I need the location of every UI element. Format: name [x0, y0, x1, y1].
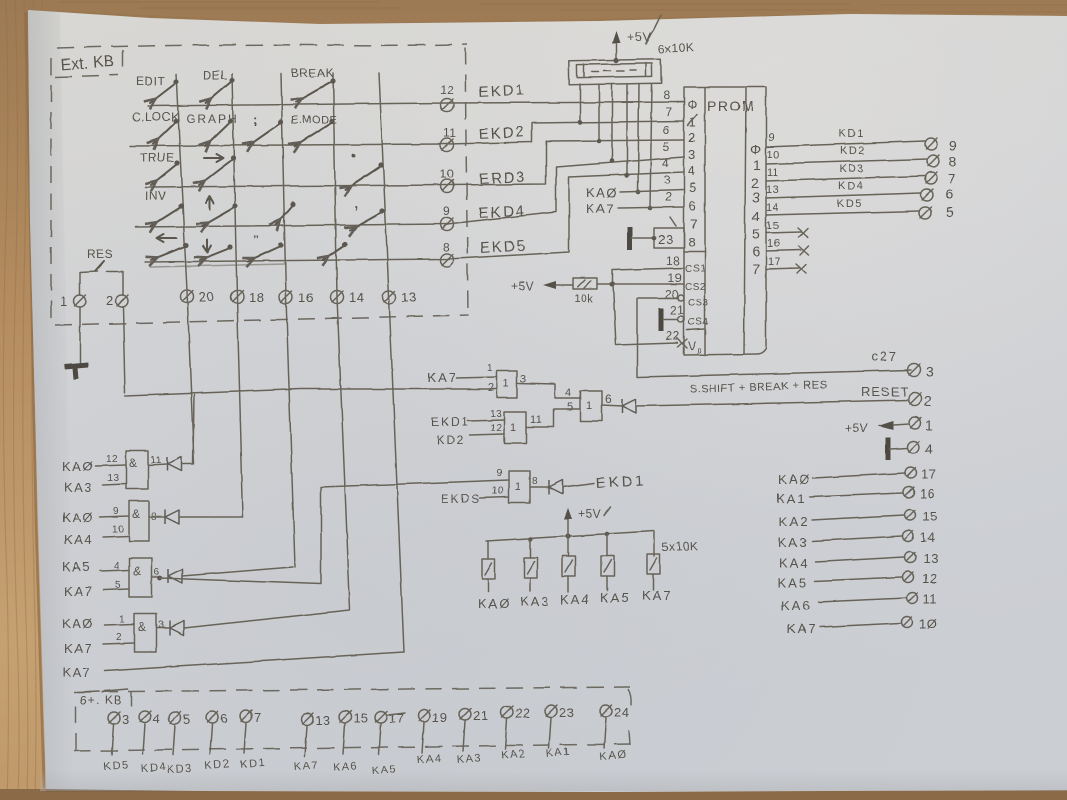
switch E.MODE: [291, 114, 337, 146]
svg-text:+5V: +5V: [845, 421, 868, 435]
svg-text:9: 9: [949, 137, 957, 153]
svg-text:EKD5: EKD5: [479, 238, 527, 257]
node 9 (EKD4 pin): [441, 204, 454, 231]
wire Vp: [613, 284, 678, 345]
svg-text:KA7: KA7: [62, 665, 91, 680]
gate U3A (KA0/KA3): [62, 451, 167, 495]
svg-text:4: 4: [153, 711, 161, 726]
svg-text:12: 12: [106, 454, 118, 465]
svg-text:13: 13: [107, 473, 119, 484]
wire KA5 to node 12: [778, 571, 937, 590]
svg-text:KA7: KA7: [427, 370, 458, 385]
output KD4 wire to node 6: [766, 180, 954, 202]
resistor network RN1 6x10K: [569, 40, 695, 85]
output KD3 wire to node 7: [766, 163, 956, 186]
svg-text:5: 5: [946, 204, 954, 220]
svg-text:10: 10: [440, 167, 454, 181]
svg-text:10k: 10k: [574, 293, 593, 305]
svg-text:EKD1: EKD1: [478, 82, 526, 101]
svg-text:+5V: +5V: [511, 279, 534, 293]
wire row EKD3 to PROM pin6: [145, 140, 684, 187]
svg-text:KD4: KD4: [838, 180, 864, 192]
resistor network RN2 5x10K bus: [486, 531, 654, 556]
svg-text:9: 9: [768, 132, 775, 144]
node 2 (RES): [106, 293, 128, 308]
svg-text:7: 7: [690, 216, 698, 231]
wire row5 overdraw stroke: [150, 264, 285, 267]
svg-text:24: 24: [614, 705, 629, 720]
svg-text:1: 1: [753, 157, 761, 173]
wire U3C output to gate U2D pin9: [160, 480, 509, 584]
svg-text:13: 13: [401, 290, 416, 305]
svg-text:KAØ: KAØ: [778, 472, 811, 487]
svg-text:TRUE: TRUE: [140, 151, 175, 165]
svg-text:EKD4: EKD4: [478, 203, 526, 222]
svg-text:20: 20: [665, 287, 679, 301]
resistor RN2-4: [601, 534, 614, 590]
svg-text:KA1: KA1: [776, 491, 807, 506]
+5V arrow (RN2): [564, 507, 610, 536]
node 8 (EKD5 pin): [441, 240, 454, 267]
svg-text:2: 2: [488, 382, 495, 394]
svg-text:1: 1: [515, 481, 522, 493]
node 10 (EKD3 pin): [440, 167, 454, 193]
svg-text:14: 14: [766, 202, 779, 214]
svg-text:KA7: KA7: [293, 759, 319, 773]
diode D4: [170, 621, 184, 635]
connector pin 23 / KA1: [545, 705, 574, 760]
svg-text:9: 9: [443, 204, 450, 218]
connector pin 15 / KA6: [332, 711, 368, 774]
node 2 (RESET): [909, 393, 933, 410]
svg-text:3: 3: [158, 620, 164, 631]
connector pin 19 / KA4: [416, 710, 447, 766]
svg-text:8: 8: [688, 235, 696, 250]
wire KA2 to node 15: [779, 509, 937, 529]
gate U3D (KA0/KA7): [62, 614, 170, 656]
connector pin 24 / KA0: [599, 705, 629, 763]
svg-text:18: 18: [249, 290, 264, 305]
svg-text:KA7: KA7: [642, 588, 673, 603]
Vp cross mark: [677, 338, 687, 348]
KA7 bus wire: [125, 389, 497, 396]
wire KA4 to node 13: [779, 551, 938, 571]
wire CS3 long loop to node 3: [637, 298, 911, 377]
node 3 (C27): [908, 364, 935, 381]
svg-text:KA5: KA5: [778, 575, 809, 590]
label KA7 (PROM address): [586, 201, 684, 216]
svg-text:KAØ: KAØ: [62, 616, 94, 631]
wire RES-2 down to KA7 bus: [123, 307, 125, 393]
node 20 (column 1 pin): [181, 289, 215, 304]
svg-text:14: 14: [920, 530, 935, 545]
node 4 (supply bar): [888, 438, 933, 460]
svg-text:13: 13: [923, 551, 938, 566]
svg-text:KA1: KA1: [545, 746, 571, 760]
connector pin 17 / KA5: [371, 711, 405, 777]
output KD2 wire to node 8: [766, 145, 957, 169]
svg-text:2: 2: [116, 632, 122, 643]
svg-text:KA3: KA3: [456, 752, 482, 766]
CS4 supply bar: [661, 308, 678, 331]
svg-text:Φ: Φ: [687, 97, 698, 112]
svg-text:13: 13: [315, 713, 330, 728]
svg-text:5: 5: [567, 401, 574, 413]
svg-text:KA6: KA6: [332, 760, 358, 774]
wire keyboard column 2: [232, 74, 243, 517]
svg-text:22: 22: [666, 329, 680, 343]
connector pin 6 / KD2: [204, 711, 231, 772]
svg-text:KA4: KA4: [779, 556, 810, 571]
wire row EKD1: [148, 102, 684, 106]
output KD5 wire to node 5: [766, 198, 954, 220]
PROM left internal pin names: [685, 97, 709, 355]
svg-text:KA2: KA2: [779, 514, 810, 529]
svg-text:2: 2: [665, 190, 672, 204]
svg-text:1: 1: [119, 614, 125, 625]
wire KA1 to node 16: [776, 486, 935, 506]
svg-text:EKD1: EKD1: [595, 472, 647, 492]
svg-text:15: 15: [766, 220, 779, 232]
wire D2 to column 2: [179, 516, 243, 518]
svg-text:3: 3: [664, 173, 671, 187]
connector pin 4 / KD4: [139, 711, 167, 775]
svg-text:KA7: KA7: [64, 584, 93, 599]
switch RES: [80, 247, 123, 295]
node 16 (column 3 pin): [280, 290, 314, 305]
switch DEL: [203, 68, 235, 103]
svg-text:1: 1: [510, 422, 517, 434]
pull-up wire 5: [636, 84, 641, 194]
switch semicolon: [248, 112, 284, 146]
output KD1 wire to node 9: [766, 128, 957, 153]
wire keyboard column 4: [333, 73, 350, 609]
node 1 (+5V): [845, 417, 933, 435]
svg-text:Φ: Φ: [750, 141, 762, 157]
wire RES-1 down to bar: [79, 307, 81, 365]
gate U2A (1): [497, 371, 517, 398]
svg-text:13: 13: [766, 184, 779, 196]
connector pin 3 / KD5: [103, 712, 130, 773]
bottom wood strip shadow line: [0, 789, 1067, 800]
svg-text:KA3: KA3: [520, 594, 551, 609]
unused output 17: [766, 256, 806, 273]
node 1 (RES): [60, 294, 86, 309]
svg-text:KA3: KA3: [778, 535, 809, 550]
svg-text:RES: RES: [87, 247, 113, 261]
resistor RN2-5: [647, 554, 660, 590]
pin 23 box with supply bar: [630, 227, 684, 250]
svg-text:3: 3: [926, 364, 934, 380]
label EKD1 (gate output): [563, 472, 647, 492]
svg-text:KAØ: KAØ: [62, 510, 94, 525]
wire KA3 to node 14: [778, 530, 935, 550]
switch INV: [145, 189, 184, 226]
unused output 15: [766, 220, 808, 237]
svg-text:KA7: KA7: [586, 201, 615, 216]
+5V supply arrow (top): [612, 15, 661, 63]
pull-up wire 1: [578, 84, 583, 124]
switch right-arrow: [199, 154, 236, 185]
wire CS2 with junction: [609, 281, 684, 286]
svg-text:5: 5: [689, 180, 697, 195]
svg-text:6: 6: [752, 243, 760, 259]
svg-text:2: 2: [106, 293, 114, 308]
svg-text:C.LOCK: C.LOCK: [132, 110, 180, 124]
svg-text:9: 9: [113, 506, 119, 517]
svg-text:p: p: [697, 346, 702, 355]
label KA0 (PROM address): [586, 185, 684, 200]
gate U3C (KA5/KA7): [62, 558, 162, 599]
svg-text:1: 1: [925, 417, 933, 433]
svg-text:4: 4: [662, 156, 669, 170]
svg-text:8: 8: [949, 153, 957, 169]
svg-text:CS4: CS4: [688, 317, 709, 328]
svg-text:16: 16: [767, 238, 780, 250]
unused output 16: [766, 238, 809, 255]
ground bar symbol: [64, 365, 88, 379]
svg-text:7: 7: [948, 170, 956, 186]
svg-text:EKD2: EKD2: [478, 124, 526, 143]
svg-text:11: 11: [767, 167, 779, 179]
svg-text:c27: c27: [871, 349, 898, 364]
svg-text:;: ;: [253, 112, 258, 127]
svg-text:16: 16: [298, 290, 313, 305]
svg-text:KA5: KA5: [600, 590, 631, 605]
svg-text:23: 23: [658, 232, 673, 247]
svg-text:+5V: +5V: [627, 29, 652, 44]
svg-text:15: 15: [353, 711, 368, 726]
svg-text:6: 6: [946, 186, 954, 202]
node 13 (column 5 pin): [383, 290, 417, 305]
svg-text:KAØ: KAØ: [62, 459, 94, 474]
pull-up wire 2: [597, 84, 602, 143]
switch up-arrow: [202, 196, 238, 226]
svg-text:KD2: KD2: [204, 758, 231, 772]
connector pin 21 / KA3: [456, 708, 488, 766]
wire row EKD5 to PROM pin4: [145, 172, 684, 262]
svg-text:19: 19: [432, 710, 447, 725]
svg-text:&: &: [129, 456, 138, 470]
svg-text:8: 8: [532, 476, 538, 487]
svg-text:KAØ: KAØ: [599, 749, 628, 763]
svg-text:8: 8: [663, 88, 670, 102]
svg-text:11: 11: [530, 414, 542, 426]
svg-text:”: ”: [253, 233, 260, 247]
svg-text:20: 20: [199, 289, 214, 304]
svg-text:KA2: KA2: [500, 748, 526, 762]
node 14 (column 4 pin): [331, 290, 365, 305]
svg-text:4: 4: [925, 441, 933, 457]
connector pin 22 / KA2: [500, 706, 530, 762]
svg-text:KD4: KD4: [140, 761, 167, 775]
connector pin 13 / KA7: [293, 713, 330, 773]
svg-text:KA5: KA5: [371, 763, 397, 777]
svg-text:12: 12: [490, 423, 502, 434]
svg-text:KA4: KA4: [416, 752, 442, 766]
svg-text:9: 9: [497, 468, 503, 479]
svg-text:2: 2: [924, 393, 932, 409]
svg-text:16: 16: [920, 486, 935, 501]
svg-text:2: 2: [688, 130, 696, 145]
svg-text:6: 6: [663, 123, 670, 137]
svg-text:RESET: RESET: [861, 384, 909, 399]
svg-text:6: 6: [605, 392, 612, 406]
pull-up wire 4: [625, 84, 630, 177]
svg-text:KD3: KD3: [839, 163, 865, 175]
svg-text:6: 6: [689, 198, 697, 213]
pull-up wire 6: [648, 84, 653, 210]
gate U2B (1): [567, 391, 602, 421]
svg-text:,: ,: [355, 196, 359, 211]
svg-text:10: 10: [767, 149, 780, 161]
svg-text:5: 5: [663, 140, 670, 154]
switch C.LOCK: [132, 110, 180, 144]
svg-text:KD5: KD5: [837, 198, 863, 210]
svg-text:5: 5: [183, 712, 191, 727]
svg-text:KA7: KA7: [64, 641, 93, 656]
svg-text:3: 3: [122, 712, 130, 727]
gate U2A output to U2B pin4: [517, 373, 580, 399]
svg-text:KAØ: KAØ: [478, 596, 511, 611]
wire KA6 to node 11: [781, 591, 938, 613]
switch BREAK: [291, 66, 336, 102]
svg-text:DEL: DEL: [203, 68, 228, 82]
svg-text:1: 1: [60, 294, 68, 309]
svg-text:CS3: CS3: [688, 298, 709, 309]
gate U2D (EKD5): [441, 468, 549, 506]
svg-text:21: 21: [670, 303, 684, 317]
svg-text:13: 13: [490, 409, 502, 420]
svg-text:3: 3: [688, 147, 696, 162]
svg-text:BREAK: BREAK: [291, 66, 334, 80]
resistor RN2-2: [524, 539, 537, 591]
svg-text:KD2: KD2: [436, 433, 465, 447]
svg-text:1: 1: [586, 400, 593, 412]
svg-text:KA4: KA4: [560, 592, 591, 607]
svg-text:KA3: KA3: [64, 480, 93, 495]
svg-text:KD1: KD1: [239, 757, 266, 771]
diode D2: [165, 510, 179, 524]
svg-text:1: 1: [503, 378, 510, 390]
svg-text:CS1: CS1: [685, 264, 706, 275]
svg-text:KA4: KA4: [64, 532, 93, 547]
svg-text:1: 1: [487, 363, 493, 374]
svg-text:12: 12: [922, 571, 937, 586]
CS3 inversion bubble: [678, 295, 684, 301]
RESET wire: [636, 400, 909, 406]
svg-text:ERD3: ERD3: [478, 169, 527, 188]
wire row EKD2 to PROM pin7: [130, 121, 684, 146]
switch GRAPH: [186, 112, 239, 146]
diode D3: [168, 569, 182, 583]
svg-text:15: 15: [922, 509, 937, 524]
CS4 inversion bubble: [678, 316, 684, 322]
svg-text:10: 10: [492, 486, 504, 497]
svg-text:1Ø: 1Ø: [919, 616, 937, 631]
wire D3 to column 3: [182, 567, 293, 576]
switch row3 col5 with dot mark: [345, 154, 384, 190]
svg-text:23: 23: [559, 705, 574, 720]
svg-text:6x10K: 6x10K: [657, 40, 694, 56]
PROM left pin numbers: [662, 88, 684, 343]
gate U2C (EKD1/KD2): [431, 409, 580, 447]
svg-text:6: 6: [220, 711, 228, 726]
svg-text:11: 11: [443, 126, 456, 140]
wire CS1: [612, 268, 684, 284]
PROM right internal pin names: [750, 141, 762, 277]
svg-text:+5V: +5V: [578, 507, 601, 521]
switch quote col3: [248, 233, 284, 261]
switch left-arrow: [151, 234, 189, 260]
connector pin 5 / KD3: [166, 712, 193, 776]
diode D1: [167, 457, 181, 471]
svg-text:KD5: KD5: [103, 759, 130, 773]
svg-text:KD3: KD3: [166, 762, 193, 776]
label KA7 with long wire to column 5: [62, 652, 404, 680]
wire D1 to KA7 bus: [181, 395, 194, 464]
svg-text:5x10K: 5x10K: [662, 539, 699, 554]
label 6+KB: [79, 689, 131, 707]
switch row5 col4: [323, 241, 348, 260]
svg-text:EKD1: EKD1: [431, 415, 470, 429]
resistor RN2-1: [482, 541, 495, 592]
PROM U1 body: [684, 87, 766, 355]
svg-text:17: 17: [768, 256, 781, 268]
wire keyboard column 5: [379, 73, 404, 652]
svg-text:KD1: KD1: [839, 128, 865, 140]
svg-text:&: &: [132, 507, 141, 521]
wire KA0 to node 17: [778, 467, 936, 487]
svg-text:12: 12: [440, 83, 454, 97]
svg-text:PROM: PROM: [707, 98, 755, 114]
svg-text:&: &: [133, 564, 142, 578]
label KA7 (gate E input): [427, 363, 497, 394]
svg-text:21: 21: [473, 708, 488, 723]
svg-text:10: 10: [112, 524, 124, 535]
node 18 (column 2 pin): [231, 290, 265, 305]
svg-text:EDIT: EDIT: [136, 74, 166, 88]
svg-text:14: 14: [349, 290, 364, 305]
connector pin 7 / KD1: [239, 710, 266, 771]
wire keyboard column 3: [281, 74, 295, 567]
6+KB dashed enclosure: [74, 687, 631, 753]
svg-text:KAØ: KAØ: [586, 185, 618, 200]
pull-up wire 3: [610, 84, 615, 163]
svg-text:4: 4: [565, 387, 572, 399]
svg-text:7: 7: [665, 105, 672, 119]
svg-text:CS2: CS2: [685, 282, 706, 293]
svg-text:11: 11: [923, 591, 938, 606]
svg-text:EKDS: EKDS: [441, 492, 482, 506]
svg-text:22: 22: [515, 706, 530, 721]
wire row EKD4 to PROM pin5: [135, 157, 684, 227]
svg-text:&: &: [138, 620, 147, 634]
svg-text:7: 7: [254, 710, 262, 725]
svg-text:INV: INV: [145, 189, 167, 203]
svg-text:19: 19: [668, 271, 682, 285]
node 12 (EKD1 pin): [440, 83, 454, 112]
svg-text:18: 18: [666, 254, 680, 268]
Ext.KB dashed enclosure: [51, 44, 468, 325]
svg-text:V: V: [688, 339, 697, 353]
wire KA7 to node 10: [787, 616, 937, 636]
switch comma col5: [350, 196, 385, 230]
svg-text:KD2: KD2: [840, 145, 866, 157]
switch row4 col3: [276, 201, 296, 225]
svg-text:KA6: KA6: [781, 598, 812, 613]
svg-text:8: 8: [443, 240, 450, 254]
